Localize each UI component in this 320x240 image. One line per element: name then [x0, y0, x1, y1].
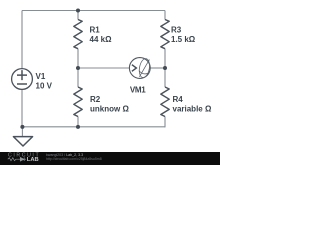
ground [13, 137, 32, 146]
wire left column upper [21, 11, 23, 69]
node middle branch junction [76, 66, 80, 70]
wire branch node to voltmeter [78, 67, 130, 69]
V1 minus sign [17, 83, 27, 85]
resistor R4 [161, 87, 169, 117]
svg-text:VM1: VM1 [130, 85, 146, 94]
wire top rail [22, 10, 165, 12]
wire right column R4 to bottom rail [164, 117, 166, 128]
footer logo resistor squiggle [8, 158, 18, 161]
wire middle column R1 to node [77, 49, 79, 68]
resistor R2 [74, 87, 82, 117]
voltmeter VM1 [129, 58, 150, 79]
svg-text:unknow Ω: unknow Ω [90, 104, 129, 113]
wire right column node to R4 [164, 68, 166, 87]
svg-text:R1: R1 [90, 25, 101, 34]
svg-text:variable Ω: variable Ω [173, 104, 212, 113]
svg-text:LAB: LAB [27, 157, 39, 163]
wire left column lower [21, 90, 23, 127]
svg-text:44 kΩ: 44 kΩ [90, 35, 113, 44]
svg-text:R2: R2 [90, 95, 101, 104]
wire middle column node to R2 [77, 68, 79, 87]
resistor R1 [74, 20, 82, 49]
footer bar [0, 152, 220, 165]
wire right column R3 to node [164, 49, 166, 68]
svg-text:10 V: 10 V [36, 81, 53, 90]
svg-text:R4: R4 [173, 95, 184, 104]
resistor R3 [161, 20, 169, 49]
node ground junction [20, 125, 24, 129]
wire middle column R2 to bottom rail [77, 117, 79, 128]
wire ground stub [21, 127, 23, 137]
footer logo diode [18, 157, 26, 161]
node middle bottom junction [76, 125, 80, 129]
VM1 scale arc [139, 71, 149, 74]
VM1 needle [139, 60, 149, 77]
voltage source V1 [12, 69, 33, 90]
svg-text:1.5 kΩ: 1.5 kΩ [171, 35, 196, 44]
wire voltmeter to right node [150, 67, 165, 69]
V1 plus sign [17, 70, 27, 80]
node right branch junction [163, 66, 167, 70]
wire middle column stub top [77, 11, 79, 20]
svg-text:V1: V1 [36, 72, 46, 81]
wire right column stub top [164, 11, 166, 20]
svg-text:http://circuitlab.com/c25j84z8: http://circuitlab.com/c25j84z8su5m8 [46, 157, 102, 161]
VM1 arrow glyph [132, 65, 137, 72]
svg-text:R3: R3 [171, 25, 182, 34]
VM1 meter face ellipse [138, 58, 151, 79]
wire bottom rail [22, 126, 165, 128]
node top rail junction [76, 9, 80, 13]
